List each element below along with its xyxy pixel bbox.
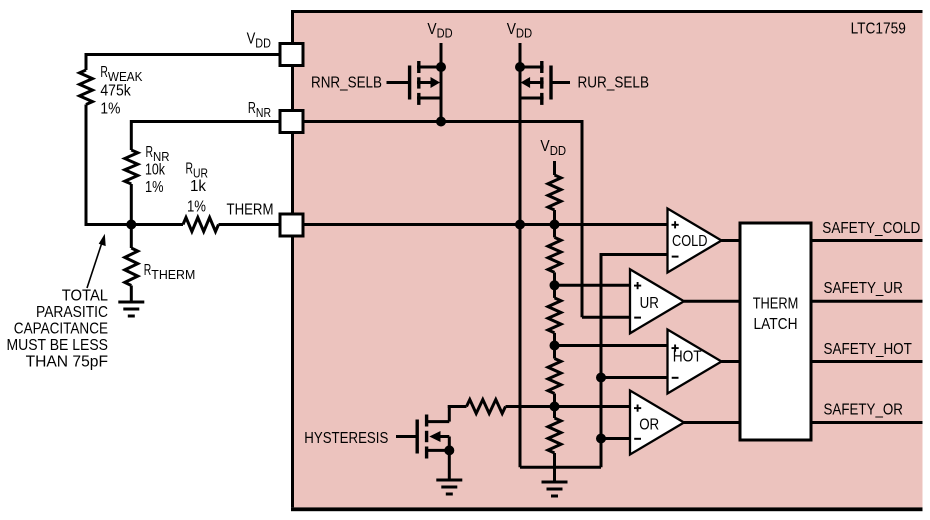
node tap2 UR plus: [550, 280, 560, 290]
chip body LTC1759: [294, 13, 923, 507]
svg-text:RUR_SELB: RUR_SELB: [578, 75, 650, 92]
wire SAFETY_UR: [811, 300, 923, 303]
wire chain R1 to tap1: [553, 210, 556, 237]
pin RNR: [280, 111, 303, 133]
wire tap3 to HOT plus: [555, 344, 668, 347]
wire RUR_SELB drain long vertical: [519, 67, 522, 467]
svg-text:SAFETY_HOT: SAFETY_HOT: [824, 341, 913, 358]
svg-text:R: R: [146, 144, 154, 161]
wire Q3 source to ground: [448, 450, 451, 480]
resistor chain R2: [548, 237, 561, 272]
wire hysteresis resistor left lead: [448, 405, 467, 408]
wire HOT output: [722, 360, 741, 363]
svg-text:MUST BE LESS: MUST BE LESS: [7, 337, 109, 354]
ground below RTHERM: [118, 301, 144, 304]
svg-text:HOT: HOT: [673, 348, 702, 365]
wire chain tap2: [553, 272, 556, 298]
resistor RWEAK: [80, 70, 93, 105]
svg-text:1k: 1k: [190, 178, 207, 195]
wire HYSTERESIS gate lead: [396, 435, 417, 438]
wire OR output: [684, 421, 740, 424]
op-amp comparator OR: [630, 391, 684, 455]
wire UR output: [684, 300, 740, 303]
wire RNR to UR minus input: [582, 316, 630, 319]
svg-text:1%: 1%: [100, 101, 120, 118]
wire hysteresis resistor to OR plus: [506, 405, 631, 408]
svg-text:1%: 1%: [145, 179, 164, 196]
wire HOT minus horizontal: [601, 376, 668, 379]
svg-text:THERM: THERM: [227, 202, 274, 219]
wire RNR pin to corner: [303, 120, 582, 123]
wire chain bottom to ground: [553, 453, 556, 482]
wire VDD pin to left rail: [86, 53, 281, 56]
node HOT minus tap: [596, 373, 606, 383]
svg-text:R: R: [144, 262, 152, 279]
resistor RTHERM: [125, 248, 138, 286]
resistor RUR: [183, 218, 219, 232]
wire OR minus horizontal: [601, 437, 630, 440]
wire VDD to RUR_SELB source: [519, 43, 522, 67]
svg-text:DD: DD: [255, 35, 271, 50]
svg-text:THAN 75pF: THAN 75pF: [26, 354, 108, 371]
wire RNR pin to branch: [131, 120, 281, 123]
wire RNR branch down lower: [130, 184, 133, 225]
resistor chain R4: [548, 359, 561, 394]
svg-text:SAFETY_COLD: SAFETY_COLD: [822, 220, 920, 237]
node VDD RUR_SELB source: [515, 62, 525, 72]
node RNR_SELB drain on RNR line: [436, 117, 446, 127]
wire RNR_SELB gate lead: [387, 81, 410, 84]
wire RTHERM to ground: [130, 286, 133, 303]
node THERM junction: [126, 220, 136, 230]
svg-text:V: V: [427, 21, 436, 38]
annotation arrow to THERM node: [87, 242, 102, 289]
svg-text:DD: DD: [437, 26, 453, 41]
svg-text:HYSTERESIS: HYSTERESIS: [304, 430, 388, 447]
svg-text:10k: 10k: [145, 162, 166, 179]
svg-text:V: V: [247, 31, 256, 48]
wire minus bus bottom horizontal: [520, 466, 601, 469]
wire VDD to RNR_SELB source: [440, 43, 443, 67]
svg-text:R: R: [186, 161, 194, 178]
op-amp comparator UR: [630, 269, 684, 333]
wire RUR to THERM pin: [219, 223, 282, 226]
transistor Q2 RUR_SELB PMOS: [549, 66, 552, 100]
wire left rail lower segment: [85, 105, 88, 227]
node tap3 HOT plus: [550, 341, 560, 351]
op-amp comparator HOT: [668, 330, 722, 394]
wire Q3 bulk to source: [448, 437, 451, 451]
wire minus bus vertical: [600, 253, 603, 467]
pin THERM: [280, 214, 303, 236]
svg-text:SAFETY_OR: SAFETY_OR: [824, 402, 903, 419]
wire tap2 to UR plus: [555, 284, 631, 287]
svg-text:COLD: COLD: [672, 233, 708, 250]
wire RTHERM upper: [130, 225, 133, 249]
wire SAFETY_HOT: [811, 360, 923, 363]
svg-text:DD: DD: [516, 26, 532, 41]
resistor chain R5: [548, 418, 561, 453]
ground below divider chain: [542, 481, 568, 484]
svg-text:THERM: THERM: [753, 296, 799, 313]
resistor chain R1: [548, 175, 561, 210]
svg-text:LATCH: LATCH: [754, 316, 798, 333]
svg-text:LTC1759: LTC1759: [851, 20, 906, 37]
ground below Q3: [436, 479, 462, 482]
node tap1 THERM: [550, 220, 560, 230]
node VDD RNR_SELB source: [436, 62, 446, 72]
wire Q3 drain up to hysteresis resistor: [448, 405, 451, 422]
wire THERM node horizontal left: [85, 223, 184, 226]
op-amp comparator COLD: [668, 209, 722, 273]
node THERM and RUR drain: [515, 220, 525, 230]
svg-text:SAFETY_UR: SAFETY_UR: [824, 280, 903, 297]
transistor Q3 HYSTERESIS NMOS: [416, 420, 419, 454]
wire RNR corner down to UR minus: [581, 120, 584, 317]
svg-text:475k: 475k: [100, 83, 131, 100]
svg-text:TOTAL: TOTAL: [62, 288, 109, 305]
wire VDD to chain: [553, 161, 556, 175]
svg-text:R: R: [248, 100, 256, 117]
svg-text:V: V: [507, 21, 516, 38]
wire COLD output: [722, 239, 741, 242]
svg-text:RNR_SELB: RNR_SELB: [311, 75, 382, 92]
wire chain tap3: [553, 333, 556, 359]
transistor Q1 RNR_SELB PMOS: [408, 66, 411, 100]
svg-text:1%: 1%: [187, 199, 206, 216]
svg-text:R: R: [100, 64, 108, 81]
wire RNR_SELB drain to RNR line: [440, 67, 443, 122]
svg-text:NR: NR: [256, 105, 271, 120]
wire RUR_SELB gate lead: [551, 81, 570, 84]
node tap4 OR plus: [550, 402, 560, 412]
block THERM LATCH: [740, 223, 811, 440]
resistor chain R3: [548, 298, 561, 333]
svg-text:THERM: THERM: [151, 267, 195, 282]
wire SAFETY_COLD: [811, 239, 923, 242]
svg-text:UR: UR: [640, 295, 659, 312]
wire RNR branch down upper: [130, 120, 133, 150]
wire chain tap4: [553, 394, 556, 419]
svg-text:OR: OR: [639, 416, 659, 433]
wire COLD minus horizontal: [601, 253, 668, 256]
svg-text:PARASITIC: PARASITIC: [36, 304, 108, 321]
svg-text:V: V: [540, 138, 550, 155]
wire SAFETY_OR: [811, 421, 923, 424]
svg-text:CAPACITANCE: CAPACITANCE: [14, 321, 108, 338]
pin VDD: [280, 44, 303, 66]
node Q3 source: [444, 445, 454, 455]
resistor hysteresis: [467, 400, 506, 414]
wire THERM pin to COLD plus: [303, 223, 668, 226]
wire left rail upper segment: [85, 53, 88, 70]
svg-text:DD: DD: [550, 143, 566, 158]
node OR minus tap: [596, 434, 606, 444]
resistor RNR: [125, 150, 138, 184]
